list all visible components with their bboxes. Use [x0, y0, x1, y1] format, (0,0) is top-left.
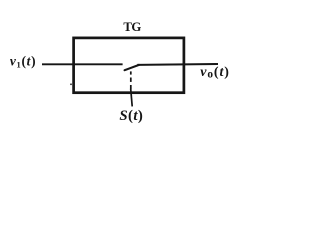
svg-text:TG: TG — [123, 20, 141, 34]
transmission gate box — [74, 38, 184, 93]
control line S(t) dashed segment dash 1 — [130, 71, 132, 74]
svg-text:S(t): S(t) — [119, 108, 143, 124]
control line S(t) dashed segment dash 3 — [130, 85, 132, 89]
switch blade S — [125, 65, 139, 70]
svg-text:v1(t): v1(t) — [10, 53, 36, 69]
wire input v1 — [42, 63, 123, 65]
svg-text:vo(t): vo(t) — [200, 65, 230, 81]
control line S(t) dashed segment dash 2 — [130, 78, 132, 82]
control line S(t) solid segment — [131, 89, 133, 107]
wire output vo — [137, 63, 218, 66]
scan speck near box left edge — [70, 83, 72, 85]
